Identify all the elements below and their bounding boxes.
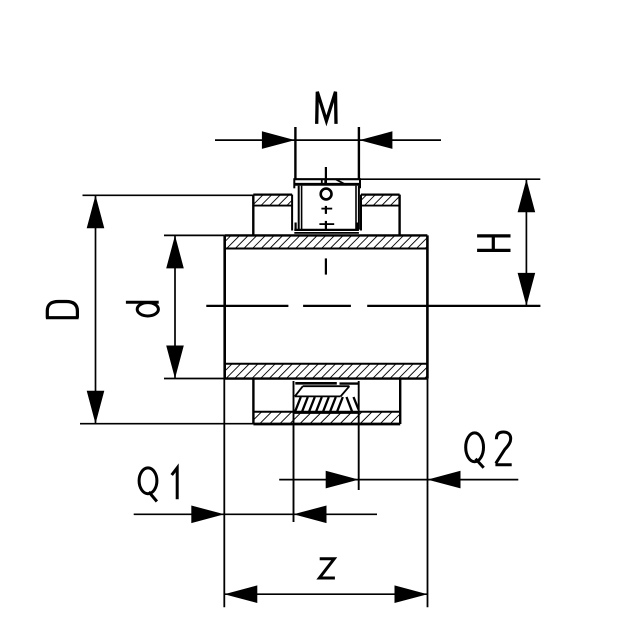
flange bottom thick line — [294, 183, 360, 186]
top boss cavity wall left — [291, 195, 293, 231]
dimension d extension top — [164, 234, 225, 236]
top boss top face right — [361, 194, 400, 196]
d arrow up — [166, 235, 184, 268]
H arrow up — [518, 179, 536, 212]
top boss band inner line right — [361, 205, 400, 207]
top boss hatch right — [361, 195, 400, 206]
left body extension line (Z / Q1) — [223, 379, 225, 608]
Q1 arrow left (tip at body edge) — [191, 506, 224, 524]
body left edge — [223, 235, 226, 378]
right body extension line (Z / Q2) — [427, 379, 429, 608]
M arrow right — [359, 131, 392, 149]
thread tick upper — [321, 208, 332, 210]
top boss cavity wall right — [360, 195, 362, 231]
dimension D line — [95, 195, 97, 423]
flange chamfer diagonal — [336, 180, 347, 186]
bottom boss bottom edge — [253, 423, 400, 426]
body bottom line — [225, 377, 428, 379]
label M — [317, 92, 336, 124]
top boss hatch left — [253, 195, 292, 206]
Q1 arrow right (tip at insert wall) — [294, 506, 327, 524]
centerline vertical (valve axis, dashes) — [325, 167, 327, 275]
bottom boss right wall — [399, 379, 401, 424]
insert right wall + Q2 extension line — [358, 381, 360, 490]
label Z — [319, 559, 335, 578]
M arrow left — [262, 131, 295, 149]
ball — [321, 189, 332, 200]
flange right edge — [359, 178, 361, 188]
flange top line + H top extension line — [294, 178, 360, 180]
dimension Q1 line — [134, 513, 377, 515]
insert bottom thick line — [294, 412, 359, 414]
bottom boss band top line — [253, 411, 400, 413]
label Q1 — [139, 468, 157, 502]
D arrow down — [87, 391, 105, 424]
stem base corner right — [357, 223, 359, 231]
insert top thick line — [295, 382, 337, 385]
Q2 arrow right (tip at body edge) — [428, 471, 461, 489]
centerline horizontal (pipe axis, dash-dot) — [206, 305, 540, 307]
body bottom hatch band — [225, 364, 428, 379]
dimension H line — [525, 179, 527, 306]
body right edge — [426, 235, 429, 378]
label Q2 — [466, 433, 484, 468]
Z arrow left — [224, 585, 257, 603]
stem base corner left — [295, 223, 297, 231]
flange left edge — [293, 178, 295, 188]
Z arrow right — [395, 585, 428, 603]
dimension M line — [215, 139, 441, 141]
bottom boss hatch band — [253, 412, 400, 423]
top boss top face left — [253, 194, 292, 196]
D arrow up — [87, 195, 105, 228]
dimension d extension bottom — [164, 378, 225, 380]
label d — [126, 302, 159, 316]
dimension d line — [174, 235, 176, 378]
stem wall left (double line) — [298, 186, 300, 230]
top boss band inner line left — [253, 205, 292, 207]
label D — [46, 302, 79, 318]
upper pipe stub right edge / M extension line — [358, 127, 360, 179]
H arrow down — [518, 273, 536, 306]
dimension D extension bottom — [80, 423, 253, 425]
Q2 arrow left (tip at insert wall) — [326, 471, 359, 489]
body top line — [225, 234, 428, 236]
flange thread ticks — [321, 179, 323, 184]
dimension Z line — [224, 593, 427, 595]
top boss outer wall left — [252, 195, 254, 236]
label H — [477, 236, 510, 251]
insert herringbone hatch — [295, 397, 358, 411]
bottom boss left wall — [252, 379, 254, 424]
insert left wall + Q1 extension line — [293, 381, 295, 522]
d arrow down — [166, 346, 184, 379]
body top hatch band — [225, 235, 428, 248]
upper pipe stub left edge / M extension line — [294, 127, 296, 179]
stem base plate lines — [294, 229, 359, 231]
body top band inner line — [225, 248, 428, 250]
thread tick lower — [319, 223, 334, 225]
top boss outer wall right — [398, 195, 400, 236]
stem wall right (double line) — [355, 186, 357, 230]
insert thread band — [303, 385, 350, 387]
dimension Q2 line — [279, 479, 518, 481]
dimension D extension top — [83, 194, 254, 196]
body bottom band inner line — [225, 363, 428, 365]
